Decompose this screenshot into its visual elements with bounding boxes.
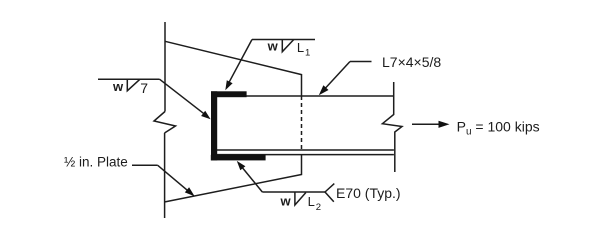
column flange vertical line (upper) (164, 22, 166, 112)
label L7x4x5/8 leader (323, 62, 372, 91)
load arrow Pu (412, 123, 440, 125)
projection line lower diagonal (165, 155, 302, 202)
svg-text:L: L (297, 40, 304, 55)
reference line (262, 191, 325, 193)
weld (top) thick bar (211, 91, 247, 97)
leader (160, 79, 207, 115)
svg-text:L: L (308, 194, 315, 209)
svg-text:w: w (112, 79, 124, 94)
weld symbol w/L2 (241, 166, 334, 205)
hidden edge of angle (dashed) (301, 96, 303, 150)
arrowhead at weld bottom bar (237, 161, 246, 170)
svg-text:E70 (Typ.): E70 (Typ.) (336, 185, 401, 201)
angle leg top edge (217, 154, 394, 156)
reference line (98, 78, 160, 80)
svg-text:½ in. Plate: ½ in. Plate (64, 155, 128, 170)
fillet triangle (295, 192, 306, 205)
fillet triangle (127, 79, 140, 91)
column break zigzag (154, 112, 176, 134)
plate top edge (246, 95, 394, 97)
svg-text:Pu = 100 kips: Pu = 100 kips (457, 119, 540, 138)
svg-text:1: 1 (305, 47, 310, 58)
projection line upper diagonal (165, 41, 302, 96)
svg-text:L7×4×5/8: L7×4×5/8 (382, 54, 441, 70)
column flange vertical line (lower) (164, 133, 166, 218)
svg-text:7: 7 (140, 80, 148, 96)
weld symbol w/L1 (228, 40, 316, 86)
arrowhead at plate top edge (319, 85, 329, 95)
label 1/2 in. Plate leader (132, 165, 189, 191)
weld symbol w/7 (98, 79, 206, 115)
leader (228, 40, 253, 86)
plate bottom edge (217, 149, 394, 151)
arrowhead at angle left face (201, 111, 211, 120)
svg-text:w: w (280, 193, 292, 208)
plate break line (382, 82, 402, 172)
svg-text:w: w (267, 38, 279, 53)
tail fork (325, 184, 334, 202)
reference line (252, 39, 315, 41)
weld (vertical) thick bar (211, 91, 217, 160)
arrowhead at weld top bar (225, 80, 232, 90)
leader (241, 166, 262, 192)
weld (bottom) thick bar (211, 155, 266, 161)
arrowhead at plate edge line (185, 187, 195, 196)
fillet triangle (282, 40, 294, 52)
svg-text:2: 2 (316, 202, 321, 213)
